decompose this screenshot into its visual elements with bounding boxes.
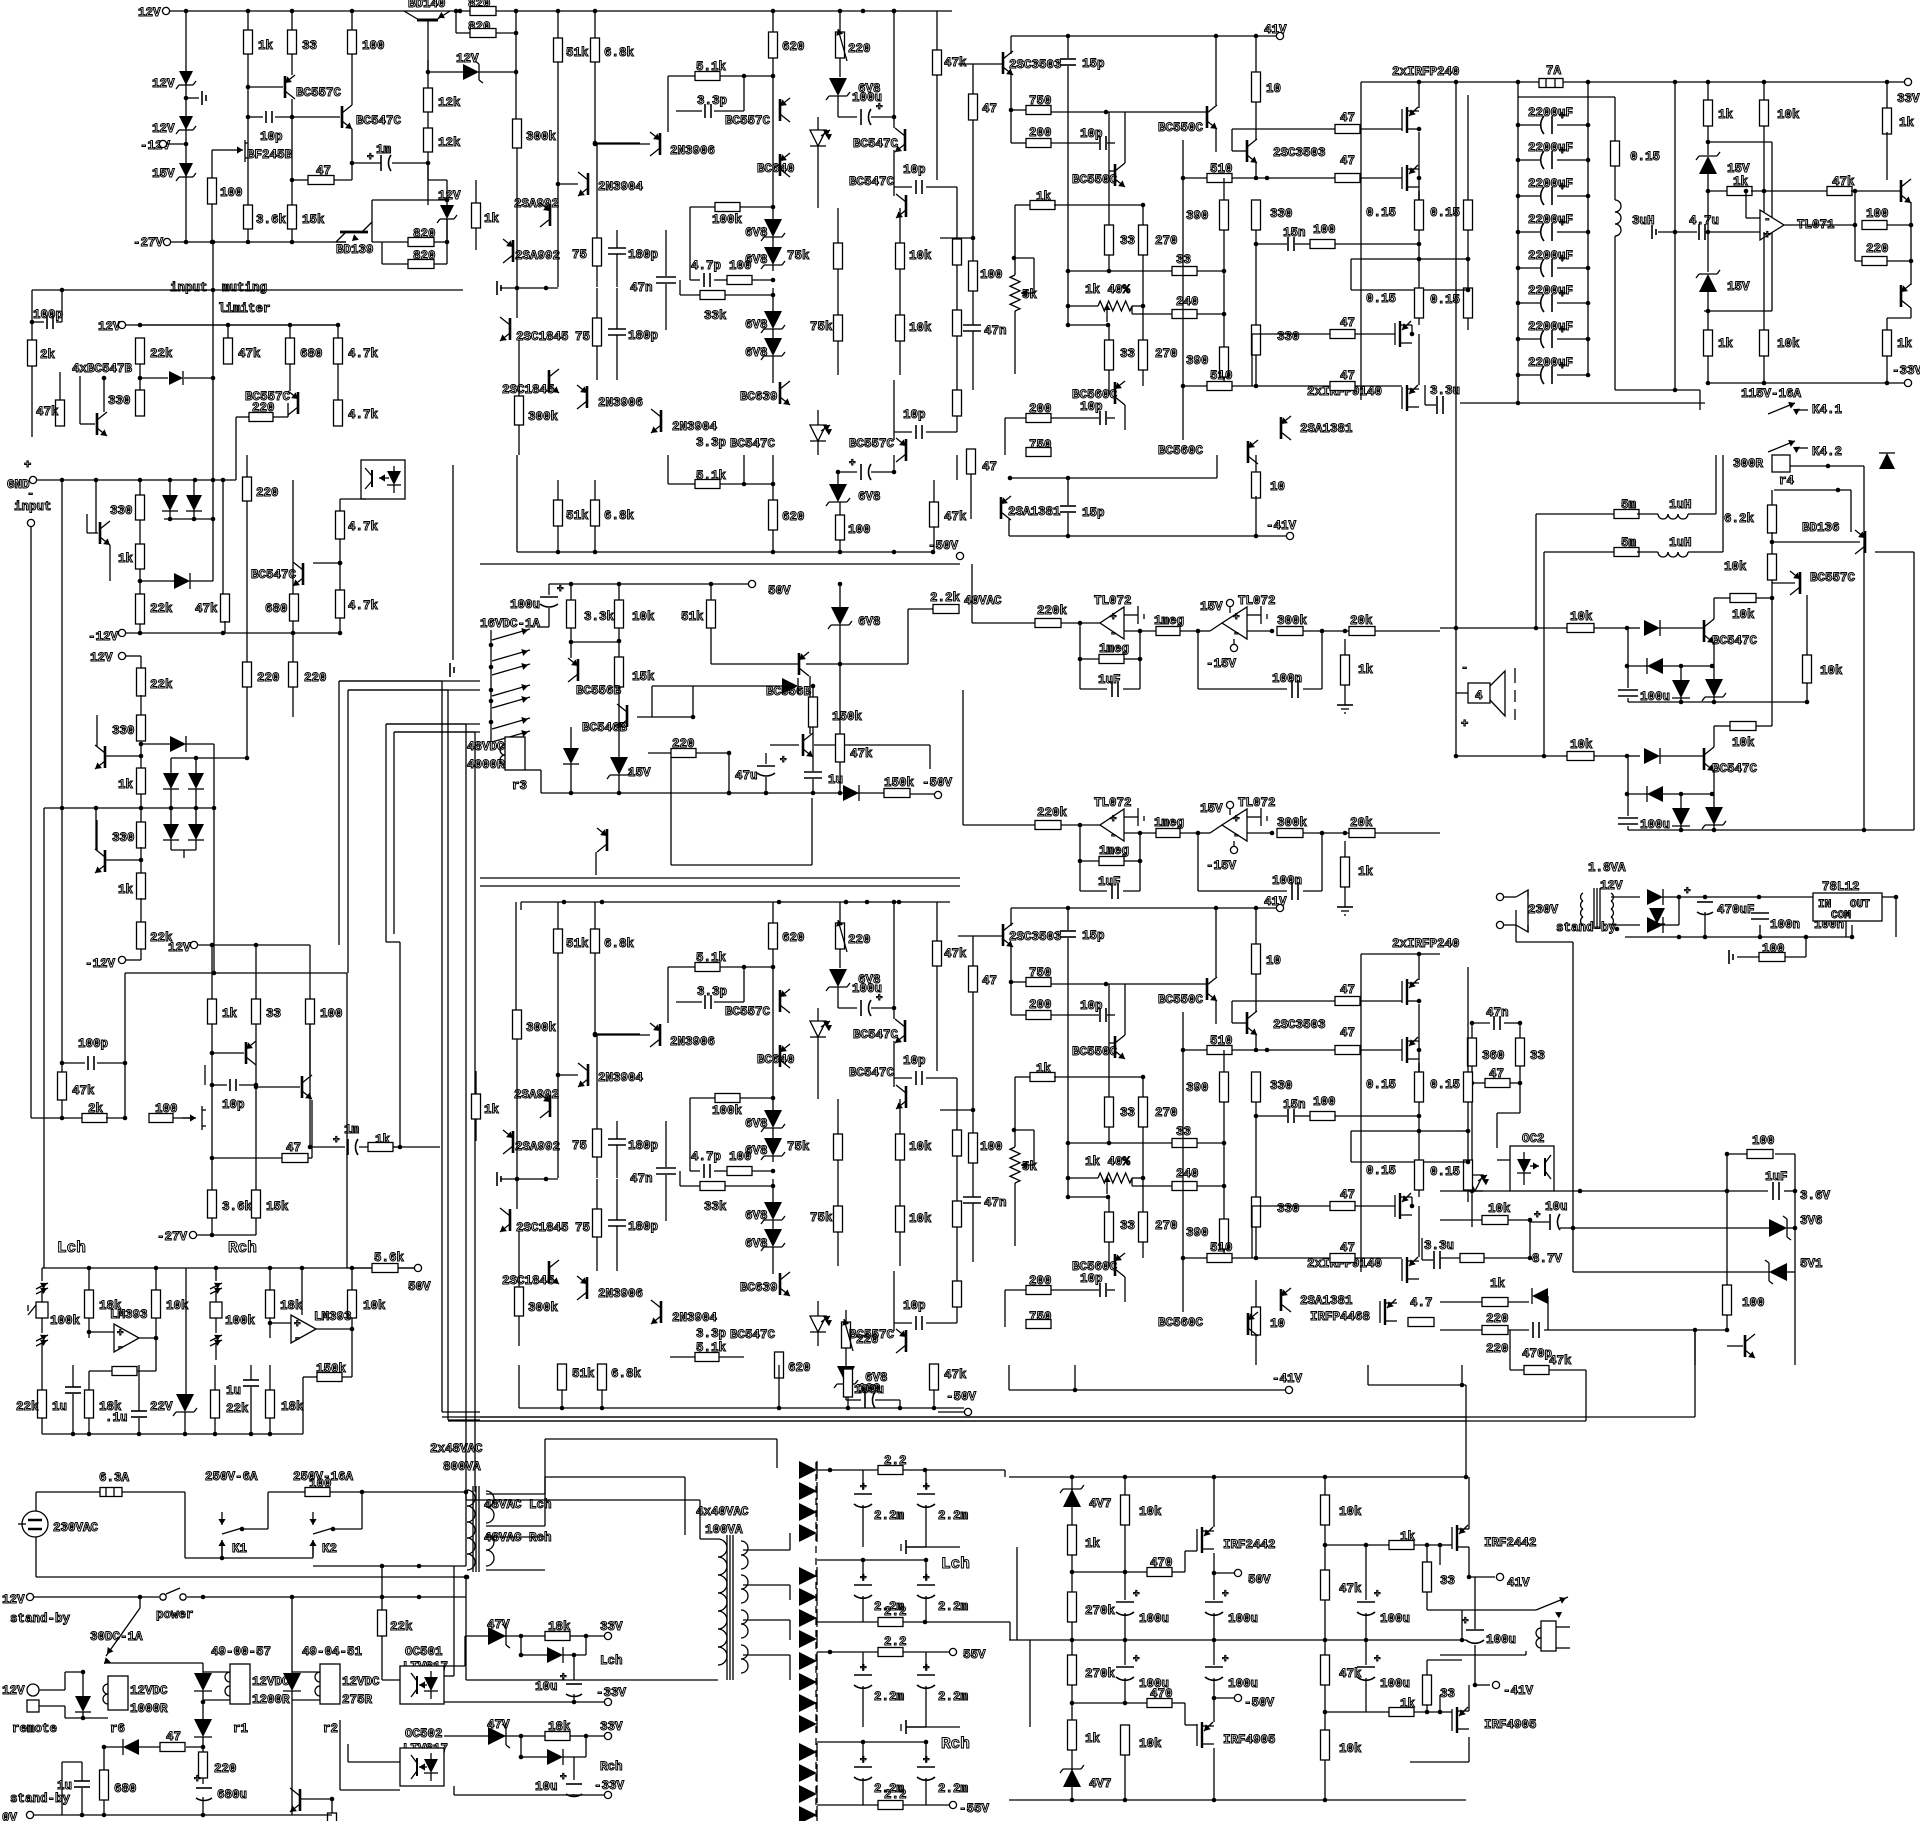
svg-text:BC557C: BC557C [849,1328,895,1342]
svg-text:100u: 100u [1228,1677,1258,1691]
svg-text:1k: 1k [484,212,500,226]
svg-text:10k: 10k [1732,736,1755,750]
svg-text:BC547C: BC547C [849,1066,895,1080]
svg-text:100u: 100u [1380,1677,1410,1691]
svg-text:6.8k: 6.8k [611,1367,642,1381]
svg-text:270k: 270k [1085,1604,1116,1618]
svg-text:BC557C: BC557C [1810,571,1856,585]
svg-text:6V8: 6V8 [745,1237,768,1251]
svg-text:100n: 100n [1272,874,1302,888]
svg-text:Lch: Lch [941,1555,970,1573]
svg-text:+: + [1461,717,1468,731]
svg-text:BC560C: BC560C [1158,444,1204,458]
svg-text:22k: 22k [390,1620,413,1634]
svg-text:-33V: -33V [1892,364,1920,378]
svg-text:2N3904: 2N3904 [598,180,644,194]
svg-text:+: + [1559,289,1566,301]
svg-text:8.7V: 8.7V [1532,1252,1563,1266]
svg-text:47k: 47k [944,56,967,70]
svg-text:10k: 10k [363,1299,386,1313]
svg-text:+: + [1110,612,1117,624]
svg-text:33: 33 [1120,1106,1135,1120]
svg-text:10p: 10p [903,1299,926,1313]
svg-text:12V: 12V [438,189,461,203]
svg-text:2200uF: 2200uF [1528,320,1573,334]
svg-text:2SA992: 2SA992 [515,1140,560,1154]
svg-text:47: 47 [1340,983,1355,997]
svg-text:49-04-51: 49-04-51 [302,1645,362,1659]
svg-text:12V: 12V [152,77,175,91]
svg-text:+: + [849,458,856,470]
svg-text:12k: 12k [438,136,461,150]
svg-text:6V8: 6V8 [745,1117,768,1131]
svg-text:100k: 100k [712,213,743,227]
svg-text:22k: 22k [16,1400,39,1414]
svg-text:-33V: -33V [594,1779,625,1793]
svg-text:TL072: TL072 [1238,594,1276,608]
svg-text:2200uF: 2200uF [1528,249,1573,263]
svg-text:33: 33 [1440,1574,1455,1588]
svg-text:4: 4 [1475,689,1483,703]
svg-text:270: 270 [1155,347,1178,361]
svg-text:100k: 100k [225,1314,256,1328]
svg-text:47: 47 [982,102,997,116]
svg-text:1u: 1u [828,773,843,787]
svg-text:BC640: BC640 [757,162,795,176]
svg-text:2.2m: 2.2m [874,1509,905,1523]
svg-text:300k: 300k [528,410,559,424]
svg-text:-41V: -41V [1272,1372,1303,1386]
svg-text:330: 330 [1277,330,1300,344]
svg-text:330: 330 [1277,1202,1300,1216]
svg-text:47n: 47n [1486,1006,1509,1020]
svg-text:1m: 1m [344,1123,360,1137]
svg-text:47: 47 [1340,316,1355,330]
svg-text:5k: 5k [1022,1160,1038,1174]
svg-text:+: + [1559,182,1566,194]
svg-text:78L12: 78L12 [1822,880,1860,894]
svg-text:-: - [294,1333,301,1345]
svg-text:10p: 10p [1080,999,1103,1013]
svg-text:33: 33 [266,1007,281,1021]
svg-text:power: power [156,1608,194,1622]
svg-text:10p: 10p [903,408,926,422]
svg-text:-50V: -50V [922,776,953,790]
svg-text:limiter: limiter [218,302,271,316]
svg-text:33V: 33V [600,1720,623,1734]
svg-text:0.15: 0.15 [1630,150,1660,164]
svg-text:BF245B: BF245B [247,148,293,162]
svg-text:2k: 2k [88,1102,104,1116]
svg-text:BC557C: BC557C [725,1005,771,1019]
svg-text:100: 100 [729,1150,752,1164]
svg-text:115V-16A: 115V-16A [1741,387,1802,401]
svg-text:2200uF: 2200uF [1528,284,1573,298]
svg-text:240: 240 [1176,1167,1199,1181]
svg-text:1k: 1k [1718,108,1734,122]
svg-text:BC550C: BC550C [1072,173,1118,187]
svg-text:OC501: OC501 [405,1645,443,1659]
svg-text:+: + [1534,1210,1541,1222]
svg-text:50V: 50V [1248,1573,1271,1587]
svg-text:0.15: 0.15 [1430,206,1460,220]
svg-text:10: 10 [1266,82,1281,96]
svg-text:10p: 10p [903,1054,926,1068]
svg-text:15p: 15p [1082,57,1105,71]
svg-text:2SC1845: 2SC1845 [502,383,555,397]
svg-text:10k: 10k [1339,1505,1362,1519]
svg-text:BC547C: BC547C [1712,762,1758,776]
svg-text:4.7k: 4.7k [348,520,379,534]
svg-text:4V7: 4V7 [1089,1777,1112,1791]
svg-text:BC547C: BC547C [730,437,776,451]
svg-text:100: 100 [320,1007,343,1021]
svg-text:75k: 75k [810,320,833,334]
svg-text:150k: 150k [316,1362,347,1376]
svg-text:10k: 10k [1570,610,1593,624]
svg-text:330: 330 [112,724,135,738]
svg-text:1k 40%: 1k 40% [1085,283,1131,297]
svg-text:IRFP4468: IRFP4468 [1310,1310,1370,1324]
svg-text:2SC3503: 2SC3503 [1009,58,1062,72]
svg-text:10p: 10p [222,1098,245,1112]
svg-text:55V: 55V [963,1648,986,1662]
svg-text:47k: 47k [238,347,261,361]
svg-text:+: + [194,1774,201,1786]
svg-text:50V: 50V [768,584,791,598]
svg-text:220: 220 [252,401,275,415]
svg-text:270: 270 [1155,1219,1178,1233]
svg-text:10k: 10k [1139,1505,1162,1519]
svg-text:+: + [1133,1654,1140,1666]
svg-text:4.7u: 4.7u [1689,214,1719,228]
svg-text:620: 620 [782,931,805,945]
svg-text:10k: 10k [1820,664,1843,678]
svg-text:220: 220 [1486,1342,1509,1356]
svg-text:220k: 220k [1037,806,1068,820]
svg-text:10k: 10k [909,249,932,263]
svg-text:6V8: 6V8 [745,1209,768,1223]
svg-text:270k: 270k [1085,1667,1116,1681]
svg-text:-55V: -55V [959,1802,990,1816]
svg-text:6V8: 6V8 [745,346,768,360]
svg-text:-: - [1233,830,1240,842]
svg-text:10k: 10k [1777,337,1800,351]
svg-text:1k: 1k [1899,116,1915,130]
svg-text:15V: 15V [1727,280,1750,294]
svg-text:+: + [876,993,883,1005]
svg-text:7A: 7A [1546,64,1562,78]
svg-text:2N3904: 2N3904 [672,420,718,434]
svg-text:BC639: BC639 [740,1281,778,1295]
svg-text:47k: 47k [944,947,967,961]
svg-text:300R: 300R [1733,457,1764,471]
svg-text:2SC1845: 2SC1845 [502,1274,555,1288]
svg-text:4xBC547B: 4xBC547B [72,362,133,376]
svg-text:BC550C: BC550C [1072,1045,1118,1059]
svg-text:300k: 300k [526,130,557,144]
svg-text:330: 330 [112,831,135,845]
svg-text:2.2m: 2.2m [938,1600,969,1614]
svg-text:10: 10 [1266,954,1281,968]
svg-text:+: + [1233,612,1240,624]
svg-text:2200uF: 2200uF [1528,356,1573,370]
svg-text:3.3k: 3.3k [584,610,615,624]
svg-text:K1: K1 [232,1542,247,1556]
svg-text:12V: 12V [98,320,121,334]
svg-text:+: + [1559,325,1566,337]
svg-text:1k 40%: 1k 40% [1085,1155,1131,1169]
svg-text:1u: 1u [226,1384,241,1398]
svg-text:r3: r3 [512,779,527,793]
svg-text:input: input [170,281,208,295]
svg-text:1uF: 1uF [1765,1170,1788,1184]
svg-text:+: + [560,1672,567,1684]
svg-text:6.2k: 6.2k [1724,512,1755,526]
svg-text:15p: 15p [1082,929,1105,943]
svg-text:stand-by: stand-by [1556,921,1617,935]
svg-text:15k: 15k [266,1200,289,1214]
svg-text:270: 270 [1155,234,1178,248]
svg-text:275R: 275R [342,1693,373,1707]
svg-text:1m: 1m [376,143,392,157]
svg-text:3.3p: 3.3p [697,94,727,108]
svg-text:+: + [1374,1654,1381,1666]
svg-text:390: 390 [1186,1226,1209,1240]
svg-text:22k: 22k [226,1402,249,1416]
svg-text:3.3u: 3.3u [1430,384,1460,398]
svg-text:Rch: Rch [600,1760,623,1774]
svg-text:47: 47 [316,164,331,178]
svg-text:48VAC Rch: 48VAC Rch [484,1531,552,1545]
svg-text:100: 100 [1742,1296,1765,1310]
svg-text:100: 100 [1752,1134,1775,1148]
svg-text:+: + [294,1319,301,1331]
svg-text:75k: 75k [787,249,810,263]
svg-text:100: 100 [848,523,871,537]
svg-text:75: 75 [572,1139,587,1153]
svg-text:100u: 100u [1228,1612,1258,1626]
svg-text:4.7k: 4.7k [348,408,379,422]
svg-text:BC550C: BC550C [1158,121,1204,135]
svg-text:Rch: Rch [941,1735,970,1753]
svg-text:BC639: BC639 [740,390,778,404]
svg-text:Lch: Lch [57,1239,86,1257]
svg-text:3.3p: 3.3p [696,436,726,450]
svg-text:3.3u: 3.3u [1424,1239,1454,1253]
svg-text:0.15: 0.15 [1366,206,1396,220]
svg-text:390: 390 [1186,209,1209,223]
svg-text:0.15: 0.15 [1430,1165,1460,1179]
svg-text:-: - [1110,628,1117,640]
svg-text:2SC1845: 2SC1845 [516,1221,569,1235]
svg-text:330: 330 [1270,207,1293,221]
svg-text:2N3906: 2N3906 [598,396,643,410]
svg-text:75: 75 [575,1221,590,1235]
svg-text:BC547C: BC547C [356,114,402,128]
svg-text:33k: 33k [704,309,727,323]
svg-text:15p: 15p [1082,506,1105,520]
svg-text:100p: 100p [33,308,63,322]
svg-text:47n: 47n [630,281,653,295]
svg-text:620: 620 [782,510,805,524]
svg-text:100: 100 [729,259,752,273]
svg-text:100: 100 [1313,1095,1336,1109]
svg-text:5.1k: 5.1k [696,1341,727,1355]
svg-text:33: 33 [1120,347,1135,361]
svg-text:47k: 47k [944,1368,967,1382]
svg-text:2SA992: 2SA992 [514,197,559,211]
svg-text:BC547C: BC547C [853,1028,899,1042]
svg-text:40VAC: 40VAC [964,594,1002,608]
svg-text:47: 47 [982,974,997,988]
svg-text:680u: 680u [217,1788,247,1802]
svg-text:6.3A: 6.3A [99,1471,130,1485]
svg-text:+: + [560,1772,567,1784]
svg-text:1uH: 1uH [1669,536,1692,550]
svg-text:47k: 47k [195,602,218,616]
svg-text:180p: 180p [628,248,658,262]
svg-text:300k: 300k [528,1301,559,1315]
svg-text:10k: 10k [1488,1202,1511,1216]
svg-text:OC502: OC502 [405,1727,443,1741]
svg-text:47k: 47k [850,747,873,761]
svg-text:2SA992: 2SA992 [515,249,560,263]
svg-text:+: + [1133,1589,1140,1601]
svg-text:LM393: LM393 [314,1310,352,1324]
svg-text:.1u: .1u [105,1411,128,1425]
svg-text:+: + [367,152,374,164]
svg-text:47k: 47k [36,405,59,419]
svg-text:470uF: 470uF [1717,903,1755,917]
svg-text:100n: 100n [1770,918,1800,932]
svg-text:620: 620 [782,40,805,54]
svg-text:33: 33 [1120,234,1135,248]
svg-text:BC550C: BC550C [1158,993,1204,1007]
svg-text:+: + [1222,1654,1229,1666]
svg-text:800VA: 800VA [443,1460,481,1474]
svg-text:33: 33 [1530,1049,1545,1063]
svg-text:22V: 22V [150,1400,173,1414]
svg-text:K4.2: K4.2 [1812,445,1842,459]
svg-text:680: 680 [114,1782,137,1796]
svg-text:3.3p: 3.3p [697,985,727,999]
svg-text:BC557C: BC557C [849,437,895,451]
svg-text:10k: 10k [1139,1737,1162,1751]
svg-text:12VDC: 12VDC [342,1675,380,1689]
svg-text:220k: 220k [1037,604,1068,618]
svg-text:4.7k: 4.7k [348,347,379,361]
svg-text:-15V: -15V [1206,657,1237,671]
svg-text:12VDC: 12VDC [252,1675,290,1689]
svg-text:10k: 10k [1570,738,1593,752]
svg-text:+: + [1374,1589,1381,1601]
svg-text:6.8k: 6.8k [604,509,635,523]
svg-text:K4.1: K4.1 [1812,403,1842,417]
svg-text:47: 47 [982,460,997,474]
svg-text:OC2: OC2 [1522,1132,1545,1146]
svg-text:BC547C: BC547C [251,568,297,582]
svg-text:51k: 51k [566,46,589,60]
svg-text:100p: 100p [78,1037,108,1051]
svg-text:2.2k: 2.2k [930,591,961,605]
svg-text:10p: 10p [1080,1272,1103,1286]
svg-text:100: 100 [858,1382,881,1396]
svg-text:47k: 47k [1339,1582,1362,1596]
svg-text:2SA1381: 2SA1381 [1300,422,1353,436]
svg-text:15V: 15V [1200,600,1223,614]
svg-text:22k: 22k [150,347,173,361]
svg-text:-27V: -27V [133,236,164,250]
svg-text:-: - [1764,214,1771,226]
svg-text:1k: 1k [1490,1277,1506,1291]
svg-text:10p: 10p [903,163,926,177]
svg-text:1.8VA: 1.8VA [1588,861,1626,875]
svg-text:r6: r6 [110,1722,125,1736]
svg-text:-12V: -12V [88,630,119,644]
svg-text:+: + [333,1135,340,1147]
svg-text:4000R: 4000R [467,758,505,772]
svg-text:41V: 41V [1507,1576,1530,1590]
svg-text:2200uF: 2200uF [1528,141,1573,155]
svg-text:r1: r1 [233,1722,248,1736]
svg-text:-12V: -12V [85,957,116,971]
svg-text:2.2m: 2.2m [938,1690,969,1704]
svg-text:6.8k: 6.8k [604,46,635,60]
svg-text:2xIRFP240: 2xIRFP240 [1392,65,1460,79]
svg-text:10k: 10k [909,1140,932,1154]
svg-text:+: + [1222,1589,1229,1601]
svg-text:51k: 51k [572,1367,595,1381]
svg-text:-41V: -41V [1503,1684,1534,1698]
svg-text:2.2m: 2.2m [938,1782,969,1796]
svg-text:75k: 75k [787,1140,810,1154]
svg-text:100: 100 [980,1140,1003,1154]
svg-text:2k: 2k [40,348,56,362]
svg-text:10u: 10u [535,1780,558,1794]
svg-text:r4: r4 [1779,474,1795,488]
svg-text:220: 220 [1486,1312,1509,1326]
svg-text:Rch: Rch [228,1239,257,1257]
svg-text:BC547C: BC547C [730,1328,776,1342]
svg-text:+: + [1559,111,1566,123]
svg-text:0.15: 0.15 [1366,292,1396,306]
svg-text:1k: 1k [484,1103,500,1117]
svg-text:10p: 10p [1080,400,1103,414]
svg-text:+: + [1559,218,1566,230]
svg-text:75: 75 [572,248,587,262]
svg-text:12V: 12V [2,1684,25,1698]
svg-text:1uF: 1uF [1098,673,1121,687]
svg-text:47n: 47n [984,1196,1007,1210]
svg-text:-: - [1461,661,1468,675]
svg-text:+: + [24,458,31,472]
svg-text:100k: 100k [712,1104,743,1118]
svg-text:100: 100 [220,186,243,200]
svg-text:6.8k: 6.8k [604,937,635,951]
svg-text:16VDC-1A: 16VDC-1A [480,617,541,631]
svg-text:47u: 47u [735,769,758,783]
svg-text:330: 330 [108,394,131,408]
svg-text:BD140: BD140 [408,0,446,11]
svg-text:10k: 10k [909,321,932,335]
svg-text:2SC1845: 2SC1845 [516,330,569,344]
svg-text:-50V: -50V [928,539,959,553]
svg-text:820: 820 [413,227,436,241]
svg-text:-33V: -33V [596,1686,627,1700]
svg-text:15k: 15k [632,670,655,684]
svg-text:300k: 300k [526,1021,557,1035]
